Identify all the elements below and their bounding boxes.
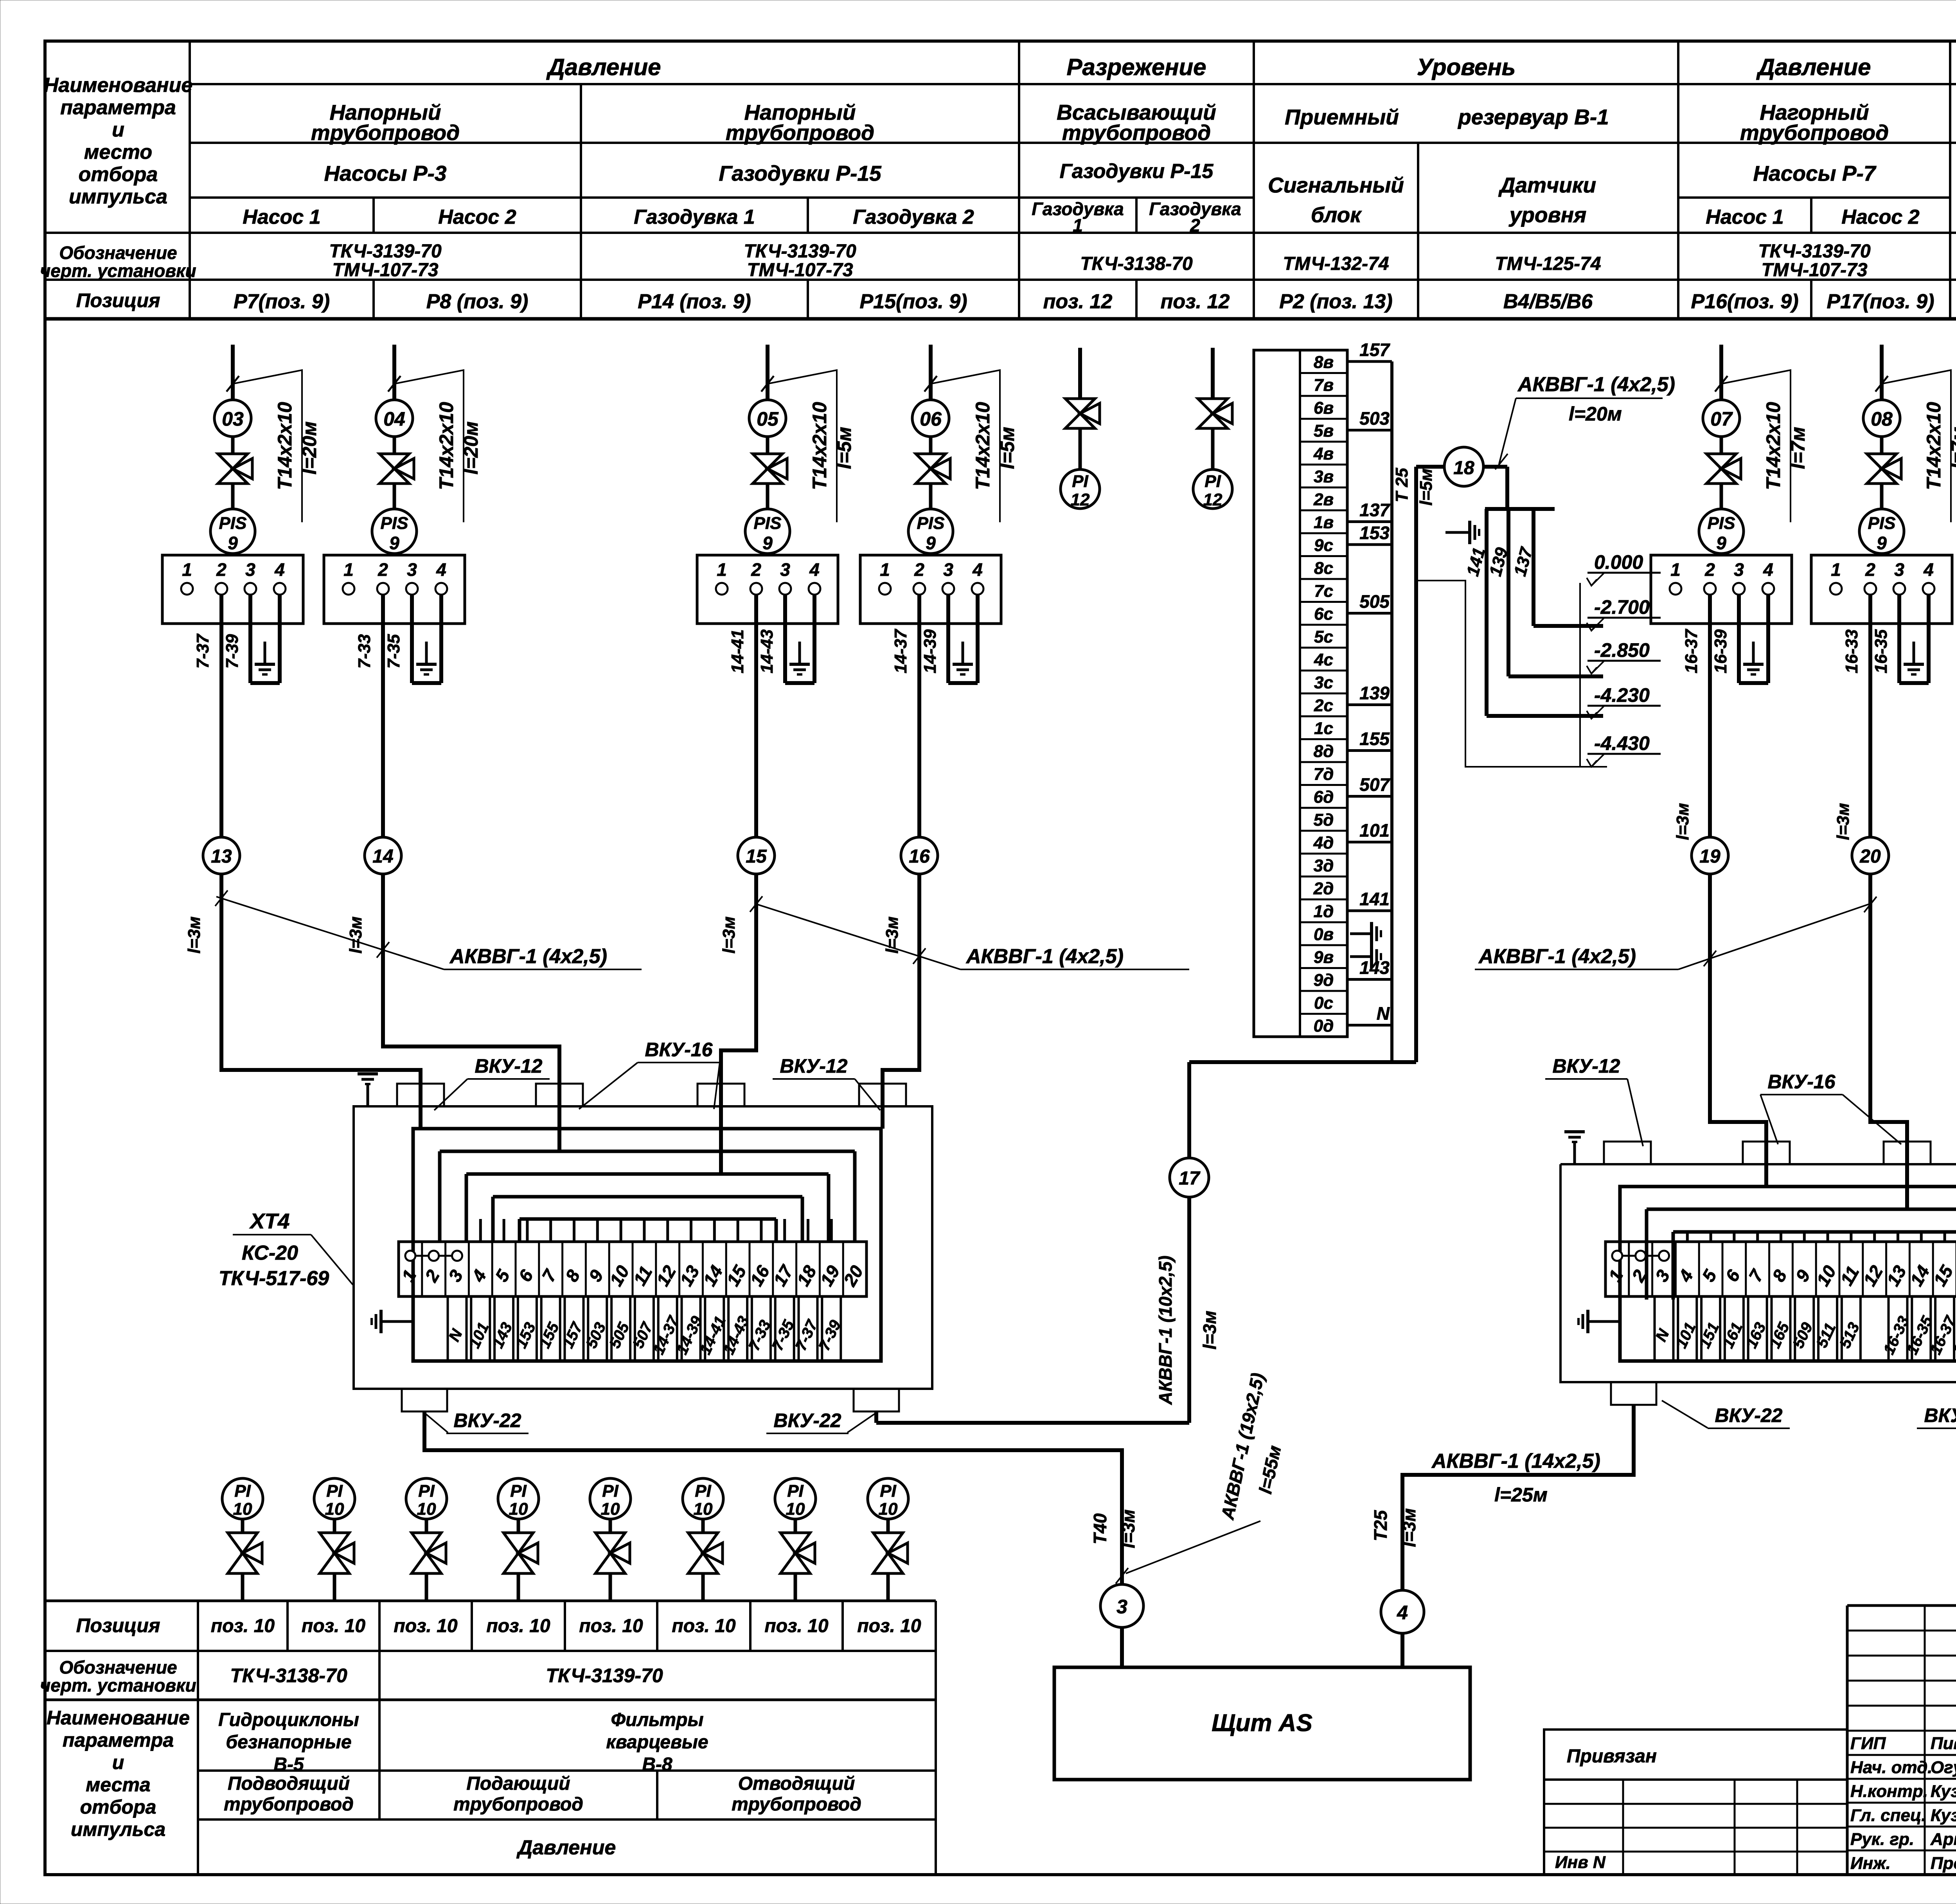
svg-text:АКВВГ-1 (4х2,5): АКВВГ-1 (4х2,5) (449, 945, 607, 968)
svg-text:PI: PI (1072, 472, 1088, 491)
svg-text:места: места (86, 1774, 150, 1796)
svg-text:5с: 5с (1314, 627, 1333, 646)
svg-text:7-33: 7-33 (355, 634, 374, 669)
svg-text:Щит АS: Щит АS (1212, 1710, 1312, 1737)
svg-text:Т14х2х10: Т14х2х10 (809, 402, 831, 490)
svg-text:ХТ4: ХТ4 (249, 1209, 290, 1233)
svg-text:поз. 10: поз. 10 (486, 1616, 550, 1636)
svg-text:3: 3 (245, 559, 255, 580)
svg-text:10: 10 (509, 1499, 528, 1519)
svg-text:15: 15 (746, 846, 767, 867)
svg-text:ТМЧ-107-73: ТМЧ-107-73 (747, 260, 853, 280)
svg-text:9: 9 (762, 533, 773, 553)
svg-text:l=3м: l=3м (1834, 803, 1853, 840)
svg-text:АКВВГ-1 (4х2,5): АКВВГ-1 (4х2,5) (965, 945, 1124, 968)
svg-text:3: 3 (1894, 559, 1904, 580)
svg-text:поз. 10: поз. 10 (579, 1616, 643, 1636)
svg-text:8в: 8в (1314, 352, 1334, 372)
svg-text:2: 2 (378, 559, 388, 580)
svg-text:9: 9 (926, 533, 936, 553)
svg-text:трубопровод: трубопровод (1740, 120, 1889, 145)
svg-text:Насос 2: Насос 2 (438, 206, 516, 228)
svg-text:3: 3 (943, 559, 953, 580)
svg-text:ВКУ-22: ВКУ-22 (774, 1410, 841, 1431)
svg-text:8д: 8д (1314, 742, 1334, 761)
svg-text:ВКУ-12: ВКУ-12 (1553, 1055, 1620, 1077)
svg-text:уровня: уровня (1508, 203, 1587, 227)
svg-text:Приемный: Приемный (1285, 105, 1399, 129)
svg-text:Р8 (поз. 9): Р8 (поз. 9) (426, 290, 529, 313)
svg-text:12: 12 (1203, 490, 1222, 509)
svg-text:10: 10 (325, 1499, 344, 1519)
svg-text:l=20м: l=20м (460, 421, 482, 475)
svg-text:ТМЧ-107-73: ТМЧ-107-73 (332, 260, 438, 280)
svg-text:7д: 7д (1314, 764, 1334, 784)
svg-text:2: 2 (1865, 559, 1875, 580)
svg-text:поз. 10: поз. 10 (211, 1616, 275, 1636)
svg-text:3д: 3д (1314, 856, 1334, 875)
svg-text:отбора: отбора (79, 163, 158, 186)
svg-text:14-43: 14-43 (757, 629, 777, 674)
svg-text:l=3м: l=3м (1118, 1509, 1138, 1548)
svg-text:2д: 2д (1313, 879, 1334, 898)
svg-text:l=7м: l=7м (1947, 427, 1956, 469)
svg-text:2: 2 (1190, 215, 1200, 236)
svg-text:АКВВГ-1 (10х2,5): АКВВГ-1 (10х2,5) (1155, 1255, 1176, 1405)
svg-text:параметра: параметра (60, 96, 176, 119)
svg-text:Газодувки Р-15: Газодувки Р-15 (719, 161, 882, 185)
svg-text:0с: 0с (1314, 993, 1333, 1012)
svg-text:PIS: PIS (917, 514, 945, 533)
svg-text:Р15(поз. 9): Р15(поз. 9) (859, 290, 967, 313)
svg-text:14: 14 (372, 846, 393, 867)
svg-text:Давление: Давление (546, 54, 661, 80)
svg-text:137: 137 (1359, 500, 1390, 520)
svg-text:l=3м: l=3м (185, 917, 204, 954)
svg-text:6в: 6в (1314, 398, 1334, 417)
svg-text:поз. 12: поз. 12 (1161, 290, 1230, 313)
svg-text:4: 4 (809, 559, 820, 580)
svg-text:10: 10 (233, 1499, 252, 1519)
svg-text:черт. установки: черт. установки (40, 1675, 196, 1695)
svg-text:PI: PI (602, 1481, 618, 1501)
svg-text:PI: PI (1205, 472, 1221, 491)
svg-text:3в: 3в (1314, 467, 1334, 486)
svg-text:Давление: Давление (516, 1836, 616, 1859)
svg-text:9с: 9с (1314, 536, 1333, 555)
svg-text:18: 18 (1453, 458, 1474, 478)
svg-text:5в: 5в (1314, 421, 1334, 440)
svg-text:Насос 1: Насос 1 (243, 206, 320, 228)
svg-text:14-39: 14-39 (920, 629, 940, 673)
svg-text:ТКЧ-3138-70: ТКЧ-3138-70 (1080, 254, 1193, 274)
svg-text:резервуар В-1: резервуар В-1 (1457, 105, 1609, 129)
svg-text:АКВВГ-1 (14х2,5): АКВВГ-1 (14х2,5) (1431, 1450, 1600, 1472)
svg-text:1д: 1д (1314, 902, 1334, 921)
svg-text:Рук. гр.: Рук. гр. (1850, 1830, 1914, 1849)
svg-text:ТКЧ-3138-70: ТКЧ-3138-70 (230, 1665, 347, 1686)
svg-text:l=20м: l=20м (298, 421, 320, 475)
svg-text:1: 1 (343, 559, 354, 580)
svg-text:В-5: В-5 (273, 1754, 304, 1775)
svg-text:Р17(поз. 9): Р17(поз. 9) (1827, 290, 1934, 313)
svg-text:ВКУ-16: ВКУ-16 (1768, 1071, 1836, 1093)
svg-text:Т14х2х10: Т14х2х10 (274, 402, 296, 490)
svg-text:3: 3 (1116, 1596, 1127, 1618)
svg-text:Отводящий: Отводящий (738, 1773, 855, 1794)
svg-text:поз. 10: поз. 10 (302, 1616, 366, 1636)
svg-text:Давление: Давление (1756, 54, 1871, 80)
svg-text:PI: PI (880, 1481, 896, 1501)
svg-text:9: 9 (1716, 533, 1726, 553)
svg-text:трубопровод: трубопровод (224, 1794, 354, 1815)
svg-text:9: 9 (1877, 533, 1887, 553)
svg-text:Проимкина: Проимкина (1931, 1854, 1956, 1873)
svg-text:4: 4 (1763, 559, 1773, 580)
svg-text:9: 9 (389, 533, 399, 553)
svg-text:и: и (112, 119, 124, 141)
svg-text:1: 1 (717, 559, 727, 580)
svg-text:Газодувка 1: Газодувка 1 (634, 206, 755, 228)
svg-text:2с: 2с (1314, 696, 1333, 715)
svg-text:3: 3 (407, 559, 417, 580)
svg-text:Т14х2х10: Т14х2х10 (972, 402, 994, 490)
svg-text:черт. установки: черт. установки (40, 261, 196, 281)
svg-text:10: 10 (417, 1499, 436, 1519)
svg-text:10: 10 (879, 1499, 898, 1519)
svg-text:Подающий: Подающий (466, 1773, 570, 1794)
svg-text:Насосы Р-7: Насосы Р-7 (1753, 161, 1877, 185)
svg-text:PI: PI (695, 1481, 711, 1501)
svg-text:-2.700: -2.700 (1594, 596, 1650, 618)
svg-text:l=5м: l=5м (833, 427, 855, 469)
svg-text:4: 4 (1923, 559, 1934, 580)
svg-text:Р14 (поз. 9): Р14 (поз. 9) (638, 290, 751, 313)
svg-text:20: 20 (1859, 846, 1881, 867)
svg-text:ВКУ-22: ВКУ-22 (1924, 1404, 1956, 1426)
svg-text:Т14х2х10: Т14х2х10 (1923, 402, 1945, 490)
svg-text:4: 4 (972, 559, 983, 580)
svg-text:трубопровод: трубопровод (311, 120, 460, 145)
svg-text:Огурцов: Огурцов (1931, 1758, 1956, 1777)
svg-text:Гидроциклоны: Гидроциклоны (218, 1710, 359, 1730)
svg-text:143: 143 (1359, 958, 1390, 978)
svg-text:и: и (112, 1751, 124, 1773)
svg-text:-2.850: -2.850 (1594, 639, 1650, 661)
svg-text:ГИП: ГИП (1850, 1734, 1886, 1753)
svg-text:1: 1 (1831, 559, 1841, 580)
svg-text:l=3м: l=3м (346, 917, 365, 954)
svg-text:101: 101 (1359, 820, 1390, 841)
svg-text:Нач. отд.: Нач. отд. (1850, 1758, 1933, 1777)
svg-text:ТКЧ-3139-70: ТКЧ-3139-70 (744, 241, 856, 262)
svg-text:9д: 9д (1314, 971, 1334, 990)
svg-text:05: 05 (757, 408, 779, 430)
svg-text:Уровень: Уровень (1417, 54, 1516, 80)
svg-text:отбора: отбора (80, 1796, 156, 1818)
svg-text:ВКУ-16: ВКУ-16 (645, 1039, 713, 1061)
svg-text:ТКЧ-517-69: ТКЧ-517-69 (219, 1267, 329, 1290)
svg-text:l=5м: l=5м (996, 427, 1018, 469)
svg-text:параметра: параметра (63, 1729, 174, 1751)
svg-text:10: 10 (786, 1499, 805, 1519)
svg-text:l=25м: l=25м (1494, 1484, 1548, 1506)
svg-text:l=3м: l=3м (1399, 1508, 1419, 1547)
svg-text:Т40: Т40 (1090, 1513, 1110, 1544)
svg-text:13: 13 (211, 846, 232, 867)
svg-text:трубопровод: трубопровод (732, 1794, 861, 1815)
svg-text:12: 12 (1071, 490, 1090, 509)
svg-text:PIS: PIS (1868, 514, 1896, 533)
svg-text:поз. 10: поз. 10 (394, 1616, 458, 1636)
svg-text:2: 2 (751, 559, 761, 580)
svg-text:16-39: 16-39 (1711, 629, 1730, 673)
svg-text:ТМЧ-107-73: ТМЧ-107-73 (1761, 260, 1867, 280)
svg-text:Гл. спец.: Гл. спец. (1850, 1806, 1926, 1825)
svg-text:В-8: В-8 (642, 1754, 672, 1775)
svg-text:1: 1 (182, 559, 192, 580)
svg-text:Обозначение: Обозначение (59, 243, 177, 263)
svg-text:Арнаутова: Арнаутова (1930, 1830, 1956, 1849)
svg-text:l=3м: l=3м (1199, 1311, 1220, 1349)
svg-text:Р7(поз. 9): Р7(поз. 9) (234, 290, 330, 313)
svg-text:Насос 2: Насос 2 (1841, 206, 1920, 228)
svg-text:3с: 3с (1314, 673, 1333, 692)
svg-text:1: 1 (1073, 215, 1083, 236)
svg-text:ВКУ-22: ВКУ-22 (1715, 1404, 1783, 1426)
svg-text:Газодувка 2: Газодувка 2 (853, 206, 974, 228)
svg-text:поз. 10: поз. 10 (764, 1616, 829, 1636)
svg-text:06: 06 (920, 408, 942, 430)
svg-text:импульса: импульса (71, 1818, 165, 1840)
svg-text:ТКЧ-3139-70: ТКЧ-3139-70 (329, 241, 442, 262)
svg-text:Наименование: Наименование (44, 74, 193, 97)
svg-text:-4.230: -4.230 (1594, 684, 1650, 706)
svg-text:В4/В5/В6: В4/В5/В6 (1503, 290, 1593, 313)
svg-text:безнапорные: безнапорные (226, 1732, 351, 1753)
svg-text:157: 157 (1359, 340, 1390, 360)
svg-text:4д: 4д (1313, 833, 1334, 852)
svg-text:2в: 2в (1313, 490, 1334, 509)
svg-text:Н.контр.: Н.контр. (1850, 1782, 1928, 1801)
svg-text:Кузнецов: Кузнецов (1931, 1782, 1956, 1801)
svg-text:4в: 4в (1313, 444, 1334, 463)
svg-text:Привязан: Привязан (1567, 1746, 1657, 1767)
svg-text:Сигнальный: Сигнальный (1268, 173, 1404, 197)
svg-text:19: 19 (1699, 846, 1720, 867)
svg-text:08: 08 (1871, 408, 1893, 430)
svg-text:6д: 6д (1314, 787, 1334, 807)
svg-text:N: N (1377, 1003, 1390, 1024)
svg-text:141: 141 (1359, 889, 1390, 909)
svg-text:1: 1 (880, 559, 890, 580)
svg-text:14-37: 14-37 (891, 628, 910, 673)
svg-text:PIS: PIS (754, 514, 782, 533)
svg-text:PI: PI (510, 1481, 527, 1501)
svg-text:6с: 6с (1314, 604, 1333, 624)
svg-text:4: 4 (436, 559, 446, 580)
svg-text:ТМЧ-132-74: ТМЧ-132-74 (1283, 254, 1389, 274)
svg-text:Инж.: Инж. (1850, 1854, 1891, 1873)
svg-text:04: 04 (383, 408, 405, 430)
svg-text:PIS: PIS (381, 514, 408, 533)
svg-text:импульса: импульса (69, 185, 167, 208)
svg-text:Позиция: Позиция (76, 289, 160, 311)
svg-text:Р16(поз. 9): Р16(поз. 9) (1691, 290, 1798, 313)
svg-text:PI: PI (418, 1481, 435, 1501)
svg-text:трубопровод: трубопровод (1062, 120, 1211, 145)
svg-text:16-37: 16-37 (1682, 628, 1701, 673)
svg-text:139: 139 (1359, 683, 1390, 703)
svg-text:5д: 5д (1314, 810, 1334, 829)
svg-text:155: 155 (1359, 729, 1390, 749)
svg-text:Обозначение: Обозначение (59, 1657, 177, 1677)
svg-text:трубопровод: трубопровод (726, 120, 874, 145)
svg-text:10: 10 (694, 1499, 713, 1519)
svg-text:16-33: 16-33 (1842, 629, 1861, 674)
svg-text:Кузнецов: Кузнецов (1931, 1806, 1956, 1825)
svg-text:Т25: Т25 (1370, 1510, 1391, 1541)
svg-text:Т14х2х10: Т14х2х10 (435, 402, 457, 490)
svg-text:АКВВГ-1 (4х2,5): АКВВГ-1 (4х2,5) (1478, 945, 1636, 968)
svg-text:16-35: 16-35 (1872, 629, 1891, 673)
svg-text:PI: PI (787, 1481, 804, 1501)
svg-text:Газодувки Р-15: Газодувки Р-15 (1060, 160, 1214, 183)
svg-text:Подводящий: Подводящий (228, 1773, 350, 1794)
svg-text:поз. 10: поз. 10 (857, 1616, 921, 1636)
svg-text:l=7м: l=7м (1787, 427, 1809, 469)
svg-text:0.000: 0.000 (1594, 551, 1643, 573)
svg-text:3: 3 (1734, 559, 1744, 580)
svg-text:16: 16 (909, 846, 930, 867)
svg-text:PI: PI (326, 1481, 343, 1501)
svg-text:4с: 4с (1314, 650, 1333, 669)
svg-text:l=3м: l=3м (719, 917, 739, 954)
svg-text:блок: блок (1311, 203, 1362, 227)
svg-text:1в: 1в (1314, 513, 1334, 532)
svg-text:место: место (84, 141, 152, 164)
svg-text:Т14х2х10: Т14х2х10 (1762, 402, 1784, 490)
svg-text:поз. 12: поз. 12 (1043, 290, 1113, 313)
svg-text:0д: 0д (1314, 1016, 1334, 1036)
svg-text:7с: 7с (1314, 581, 1333, 601)
svg-text:503: 503 (1359, 408, 1390, 429)
svg-text:PIS: PIS (1708, 514, 1735, 533)
svg-text:505: 505 (1359, 592, 1390, 612)
svg-text:3: 3 (780, 559, 790, 580)
svg-text:Т 25: Т 25 (1392, 467, 1411, 502)
svg-text:Разрежение: Разрежение (1066, 54, 1206, 80)
svg-text:Инв N: Инв N (1555, 1853, 1606, 1872)
svg-text:7в: 7в (1314, 376, 1334, 395)
svg-text:l=3м: l=3м (1673, 803, 1692, 840)
svg-text:l=20м: l=20м (1569, 403, 1622, 425)
svg-text:l=5м: l=5м (1417, 469, 1436, 506)
svg-text:0в: 0в (1314, 925, 1334, 944)
svg-text:-4.430: -4.430 (1594, 732, 1650, 754)
svg-text:153: 153 (1359, 523, 1390, 543)
svg-text:трубопровод: трубопровод (453, 1794, 583, 1815)
svg-text:Датчики: Датчики (1498, 173, 1596, 197)
svg-text:поз. 10: поз. 10 (672, 1616, 736, 1636)
svg-text:ВКУ-12: ВКУ-12 (780, 1055, 848, 1077)
svg-text:9в: 9в (1314, 948, 1334, 967)
svg-text:14-41: 14-41 (728, 629, 747, 674)
svg-text:ТКЧ-3139-70: ТКЧ-3139-70 (1758, 241, 1871, 262)
svg-text:1: 1 (1670, 559, 1681, 580)
svg-text:9: 9 (228, 533, 238, 553)
svg-text:7-37: 7-37 (193, 633, 212, 669)
svg-text:Насос 1: Насос 1 (1706, 206, 1783, 228)
svg-text:PIS: PIS (219, 514, 247, 533)
svg-text:10: 10 (601, 1499, 620, 1519)
svg-text:Р2 (поз. 13): Р2 (поз. 13) (1279, 290, 1392, 313)
svg-text:ВКУ-22: ВКУ-22 (454, 1410, 521, 1431)
svg-text:2: 2 (914, 559, 924, 580)
svg-text:Насосы Р-3: Насосы Р-3 (324, 161, 447, 185)
svg-text:ВКУ-12: ВКУ-12 (475, 1055, 543, 1077)
svg-text:507: 507 (1359, 775, 1390, 795)
svg-text:7-39: 7-39 (223, 634, 242, 669)
svg-text:Наименование: Наименование (47, 1707, 190, 1729)
svg-text:2: 2 (1704, 559, 1715, 580)
svg-text:кварцевые: кварцевые (606, 1732, 708, 1753)
svg-text:КС-20: КС-20 (242, 1242, 298, 1264)
svg-text:Пивторак: Пивторак (1931, 1734, 1956, 1753)
svg-text:ТМЧ-125-74: ТМЧ-125-74 (1495, 254, 1601, 274)
svg-text:03: 03 (222, 408, 244, 430)
svg-text:Фильтры: Фильтры (611, 1710, 704, 1730)
svg-text:7-35: 7-35 (384, 634, 403, 669)
svg-text:8с: 8с (1314, 559, 1333, 578)
svg-text:2: 2 (216, 559, 227, 580)
svg-text:АКВВГ-1 (4х2,5): АКВВГ-1 (4х2,5) (1517, 373, 1675, 396)
svg-text:17: 17 (1179, 1168, 1201, 1189)
svg-text:1с: 1с (1314, 719, 1333, 738)
svg-text:4: 4 (274, 559, 285, 580)
svg-text:07: 07 (1710, 408, 1733, 430)
svg-text:PI: PI (234, 1481, 251, 1501)
svg-text:Позиция: Позиция (76, 1615, 160, 1636)
svg-text:4: 4 (1397, 1602, 1408, 1624)
svg-text:ТКЧ-3139-70: ТКЧ-3139-70 (546, 1665, 663, 1686)
